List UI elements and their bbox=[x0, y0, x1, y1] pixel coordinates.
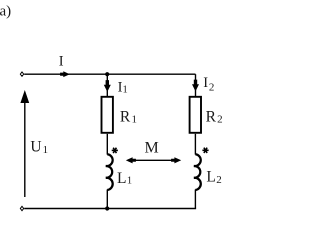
wire (branch 1, between R1 and L1) bbox=[106, 134, 108, 155]
resistor R1 bbox=[102, 97, 113, 133]
svg-text:a): a) bbox=[0, 3, 11, 19]
wire (branch 2, below L2) bbox=[194, 190, 196, 209]
wire (branch 1, below L1) bbox=[106, 190, 108, 209]
wire (branch 1 vertical, top segment) bbox=[106, 74, 108, 96]
svg-text:M: M bbox=[145, 140, 159, 157]
inductor L1 bbox=[106, 154, 113, 190]
terminal (bottom-left input port) bbox=[20, 206, 25, 212]
polarity dot (asterisk) of L2 bbox=[202, 148, 208, 153]
polarity dot (asterisk) of L1 bbox=[112, 148, 118, 153]
node (junction bottom, branch 1) bbox=[105, 206, 109, 210]
mutual inductance arrow M (double-headed) bbox=[126, 157, 181, 163]
arrow I1 (current into branch 1) bbox=[104, 80, 111, 92]
wire (bottom horizontal) bbox=[24, 208, 196, 210]
node (junction top, branch 1) bbox=[105, 72, 109, 76]
inductor L2 bbox=[194, 154, 201, 190]
terminal (top-left input port) bbox=[20, 71, 25, 77]
resistor R2 bbox=[190, 97, 201, 133]
svg-text:I: I bbox=[59, 54, 64, 70]
wire (branch 2, between R2 and L2) bbox=[194, 134, 196, 155]
wire (branch 2 vertical, top segment) bbox=[195, 74, 197, 96]
arrow I2 (current into branch 2) bbox=[192, 80, 199, 92]
arrow I (current on top wire) bbox=[60, 71, 70, 77]
wire (top horizontal) bbox=[24, 73, 195, 75]
arrow U1 (source voltage arrow) bbox=[20, 90, 29, 197]
